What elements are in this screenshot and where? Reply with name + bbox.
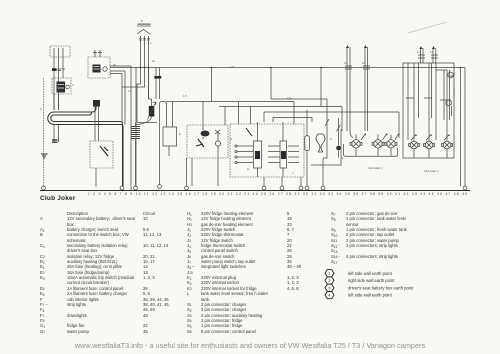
svg-text:Club Joker 1: Club Joker 1 bbox=[368, 166, 383, 170]
svg-text:B: B bbox=[141, 19, 143, 23]
svg-text:12a: 12a bbox=[287, 96, 292, 100]
svg-text:H: H bbox=[330, 137, 332, 141]
svg-text:1: 1 bbox=[328, 271, 331, 276]
svg-text:4: 4 bbox=[328, 293, 331, 298]
svg-text:c: c bbox=[150, 42, 152, 45]
svg-text:1 2 3 4 5 6 7 8 9 10 11 12 13: 1 2 3 4 5 6 7 8 9 10 11 12 13 14 15 16 1… bbox=[88, 192, 467, 196]
svg-text:right side wall earth point: right side wall earth point bbox=[348, 278, 395, 283]
svg-text:30: 30 bbox=[113, 63, 116, 67]
svg-text:driver's seat battery box eart: driver's seat battery box earth point bbox=[348, 285, 414, 290]
svg-text:A: A bbox=[40, 107, 42, 111]
svg-text:12a: 12a bbox=[230, 65, 235, 69]
svg-text:E: E bbox=[179, 132, 181, 136]
svg-text:J: J bbox=[292, 171, 294, 175]
svg-text:left side wall earth point: left side wall earth point bbox=[348, 293, 393, 298]
svg-text:2: 2 bbox=[328, 278, 331, 283]
svg-text:H: H bbox=[247, 167, 249, 171]
svg-text:C: C bbox=[72, 83, 74, 87]
svg-text:Club Joker 2: Club Joker 2 bbox=[424, 169, 439, 173]
svg-text:2.5: 2.5 bbox=[128, 89, 132, 93]
svg-text:G: G bbox=[230, 137, 232, 141]
svg-text:1.5: 1.5 bbox=[183, 94, 187, 98]
svg-text:1c: 1c bbox=[417, 50, 420, 54]
svg-text:E: E bbox=[150, 111, 152, 115]
svg-text:left side wall earth point: left side wall earth point bbox=[348, 271, 393, 276]
svg-text:4a: 4a bbox=[152, 59, 155, 63]
svg-text:3: 3 bbox=[328, 285, 331, 290]
